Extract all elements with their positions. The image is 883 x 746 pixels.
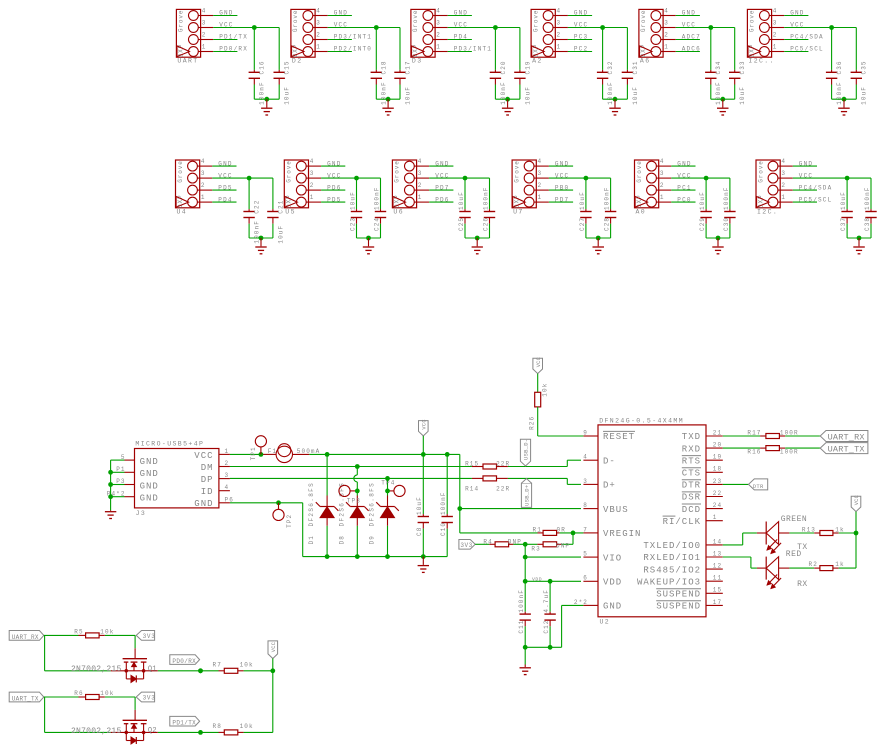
svg-text:C25: C25 [458,217,465,231]
svg-text:2: 2 [538,182,543,189]
svg-text:8: 8 [583,502,588,509]
svg-text:4: 4 [316,8,321,15]
svg-text:GND: GND [603,602,622,612]
svg-text:P3: P3 [116,478,125,485]
svg-text:C23: C23 [349,217,356,231]
svg-text:3V3: 3V3 [143,633,156,640]
svg-text:100R: 100R [780,429,799,436]
svg-text:R7: R7 [213,662,222,669]
svg-text:Grove: Grove [636,160,643,183]
svg-text:4: 4 [660,158,665,165]
svg-text:DTR: DTR [682,481,701,491]
svg-text:C10: C10 [440,522,447,536]
svg-text:D3: D3 [412,58,423,65]
svg-text:GND: GND [140,481,159,491]
svg-text:RED: RED [786,550,802,559]
svg-text:100nF: 100nF [254,220,261,244]
svg-text:11: 11 [713,575,722,582]
svg-text:C37: C37 [840,217,847,231]
svg-text:C21: C21 [277,200,284,214]
svg-text:1k: 1k [835,526,844,533]
svg-text:UART: UART [177,58,198,65]
svg-text:D2: D2 [292,58,303,65]
svg-text:3: 3 [781,170,786,177]
svg-text:2*2: 2*2 [574,599,588,606]
svg-text:100nF: 100nF [607,81,614,105]
svg-text:DM: DM [201,463,214,473]
svg-text:100R: 100R [780,448,799,455]
svg-text:1: 1 [781,194,786,201]
svg-text:C32: C32 [607,60,614,74]
svg-text:2: 2 [201,182,206,189]
svg-text:TP1: TP1 [250,446,257,460]
svg-text:5: 5 [583,551,588,558]
svg-text:7: 7 [583,526,588,533]
svg-text:DNP: DNP [556,542,570,549]
svg-text:3V3: 3V3 [460,542,472,549]
svg-text:RX: RX [797,580,808,589]
svg-text:C11: C11 [518,619,525,633]
svg-text:100nF: 100nF [482,186,489,210]
svg-text:C19: C19 [524,60,531,74]
svg-text:14: 14 [713,538,722,545]
svg-text:22: 22 [713,490,722,497]
svg-text:R4: R4 [483,538,492,545]
svg-text:1: 1 [538,194,543,201]
svg-text:3V3: 3V3 [143,695,156,702]
svg-text:3: 3 [310,170,315,177]
svg-text:U6: U6 [393,208,404,215]
svg-text:100nF: 100nF [373,186,380,210]
svg-text:C8: C8 [416,527,423,536]
svg-text:C36: C36 [836,60,843,74]
svg-text:1: 1 [557,44,562,51]
svg-text:4: 4 [773,8,778,15]
svg-text:CTS: CTS [682,469,701,479]
svg-text:C22: C22 [254,200,261,214]
svg-text:2: 2 [310,182,315,189]
svg-text:2N7002,215: 2N7002,215 [71,665,122,674]
svg-text:0R: 0R [557,527,566,534]
svg-text:1: 1 [773,44,778,51]
svg-text:4: 4 [781,158,786,165]
svg-text:VREGIN: VREGIN [603,529,641,539]
svg-text:3: 3 [583,478,588,485]
svg-text:RI/CLK: RI/CLK [663,517,701,527]
svg-text:C24: C24 [373,217,380,231]
svg-text:GND: GND [140,494,159,504]
svg-text:1: 1 [225,448,230,455]
svg-text:17: 17 [713,599,722,606]
svg-text:Grove: Grove [757,160,764,183]
svg-text:23: 23 [713,478,722,485]
svg-text:100nF: 100nF [836,81,843,105]
svg-text:4.7uF: 4.7uF [543,589,550,613]
svg-text:4: 4 [436,8,441,15]
svg-text:4: 4 [583,454,588,461]
svg-text:10uF: 10uF [416,496,423,515]
svg-text:4: 4 [202,8,207,15]
svg-text:3: 3 [418,170,423,177]
svg-text:C28: C28 [604,217,611,231]
svg-text:3: 3 [202,20,207,27]
svg-text:U5: U5 [285,208,296,215]
svg-text:Grove: Grove [292,10,299,33]
svg-text:J3: J3 [136,510,147,517]
svg-text:10uF: 10uF [699,191,706,210]
svg-text:I2C.: I2C. [757,208,778,215]
svg-text:D+: D+ [603,481,616,491]
svg-text:10uF: 10uF [739,86,746,105]
svg-text:4: 4 [538,158,543,165]
svg-text:R15: R15 [465,460,479,467]
svg-text:R2: R2 [809,561,818,568]
svg-text:1: 1 [660,194,665,201]
svg-text:DF2S6.8FS: DF2S6.8FS [369,482,376,527]
svg-text:24: 24 [713,502,722,509]
svg-text:MICRO-USB5+4P: MICRO-USB5+4P [135,441,204,448]
svg-text:R1: R1 [533,527,542,534]
svg-text:TXD: TXD [682,432,701,442]
svg-text:1: 1 [316,44,321,51]
svg-text:10uF: 10uF [277,225,284,244]
svg-text:R5: R5 [74,629,83,636]
svg-text:21: 21 [713,429,722,436]
svg-text:R3: R3 [531,546,540,553]
svg-text:PD0/RX: PD0/RX [172,658,196,665]
svg-text:VCC: VCC [194,451,213,461]
svg-text:U7: U7 [513,208,524,215]
svg-text:RXLED/IO1: RXLED/IO1 [643,553,701,563]
svg-text:2: 2 [316,32,321,39]
svg-text:2N7002,215: 2N7002,215 [71,727,122,736]
svg-text:GND: GND [140,469,159,479]
svg-text:10uF: 10uF [284,86,291,105]
svg-text:I2C..: I2C.. [748,58,775,65]
svg-text:VBUS: VBUS [603,505,629,515]
svg-text:R16: R16 [747,448,761,455]
svg-text:10uF: 10uF [632,86,639,105]
svg-text:2: 2 [557,32,562,39]
svg-text:10k: 10k [100,629,114,636]
svg-text:1: 1 [713,514,718,521]
svg-text:3: 3 [225,472,230,479]
svg-text:Grove: Grove [412,10,419,33]
svg-text:10uF: 10uF [524,86,531,105]
svg-text:GREEN: GREEN [781,515,808,524]
svg-text:3: 3 [660,170,665,177]
svg-text:DTR: DTR [753,483,764,490]
svg-text:VIO: VIO [603,553,622,563]
svg-text:22R: 22R [496,486,510,493]
svg-text:C35: C35 [861,60,868,74]
svg-text:D-: D- [603,456,616,466]
svg-text:DSR: DSR [682,493,701,503]
svg-text:R6: R6 [74,690,83,697]
svg-text:2: 2 [781,182,786,189]
svg-text:TXLED/IO0: TXLED/IO0 [643,541,701,551]
svg-text:ID: ID [201,487,214,497]
svg-text:VCC: VCC [421,419,427,429]
svg-text:2: 2 [202,32,207,39]
svg-text:A6: A6 [640,58,651,65]
svg-text:4: 4 [557,8,562,15]
svg-text:C18: C18 [381,60,388,74]
svg-text:3: 3 [664,20,669,27]
svg-text:C27: C27 [579,217,586,231]
svg-text:Q2: Q2 [148,727,157,735]
svg-text:DF2S6.8FS: DF2S6.8FS [308,482,315,527]
svg-text:PD1/TX: PD1/TX [172,720,196,727]
svg-text:UART_TX: UART_TX [828,445,865,455]
svg-text:2: 2 [660,182,665,189]
svg-text:F1: F1 [268,448,277,455]
svg-text:C15: C15 [284,60,291,74]
svg-text:100nF: 100nF [723,186,730,210]
svg-text:100nF: 100nF [715,81,722,105]
svg-text:1: 1 [201,194,206,201]
svg-text:VDD: VDD [603,578,622,588]
svg-text:USB_D-: USB_D- [523,439,530,460]
svg-text:C17: C17 [404,60,411,74]
svg-text:U4: U4 [177,208,188,215]
svg-text:C30: C30 [723,217,730,231]
svg-text:UART_RX: UART_RX [12,634,39,641]
svg-text:TP3: TP3 [347,498,361,505]
svg-text:D8: D8 [338,535,345,544]
svg-text:GND: GND [194,499,213,509]
svg-text:3: 3 [773,20,778,27]
svg-text:1: 1 [418,194,423,201]
svg-text:DFN24G-0.5-4X4MM: DFN24G-0.5-4X4MM [599,417,684,424]
svg-text:DP: DP [201,475,214,485]
svg-text:4: 4 [418,158,423,165]
svg-text:P1: P1 [116,466,125,473]
svg-text:10uF: 10uF [579,191,586,210]
svg-text:1: 1 [202,44,207,51]
svg-text:SUSPEND: SUSPEND [656,590,701,600]
svg-text:SUSPEND: SUSPEND [656,602,701,612]
svg-text:100nF: 100nF [259,81,266,105]
svg-text:2: 2 [418,182,423,189]
svg-text:5: 5 [121,454,126,461]
svg-text:22R: 22R [496,460,510,467]
svg-text:C34: C34 [715,60,722,74]
svg-text:3: 3 [557,20,562,27]
svg-text:2: 2 [225,460,230,467]
svg-text:RTS: RTS [682,456,701,466]
svg-text:Grove: Grove [394,160,401,183]
svg-text:C26: C26 [482,217,489,231]
svg-text:C16: C16 [259,60,266,74]
svg-text:R26: R26 [529,416,536,430]
svg-text:VCC: VCC [536,357,542,367]
svg-text:10uF: 10uF [404,86,411,105]
svg-text:500mA: 500mA [297,448,321,455]
svg-text:U2: U2 [600,619,611,626]
svg-text:10uF: 10uF [840,191,847,210]
svg-text:Grove: Grove [178,10,185,33]
svg-text:C20: C20 [500,60,507,74]
svg-text:3: 3 [436,20,441,27]
svg-text:1k: 1k [835,561,844,568]
svg-text:4: 4 [225,484,230,491]
svg-text:UART_TX: UART_TX [12,695,39,702]
svg-text:1: 1 [436,44,441,51]
svg-text:WAKEUP/IO3: WAKEUP/IO3 [637,577,701,587]
svg-text:100nF: 100nF [864,186,871,210]
svg-text:6: 6 [583,575,588,582]
svg-text:10uF: 10uF [458,191,465,210]
svg-text:1: 1 [664,44,669,51]
svg-text:RS485/IO2: RS485/IO2 [643,565,701,575]
svg-text:10uF: 10uF [349,191,356,210]
svg-text:USB_D+: USB_D+ [524,485,531,506]
svg-text:C29: C29 [699,217,706,231]
svg-text:12: 12 [713,563,722,570]
svg-text:2: 2 [664,32,669,39]
svg-text:3: 3 [316,20,321,27]
svg-text:1: 1 [310,194,315,201]
svg-text:15: 15 [713,587,722,594]
svg-text:4: 4 [201,158,206,165]
svg-text:C31: C31 [632,60,639,74]
svg-text:10k: 10k [240,662,254,669]
svg-text:Grove: Grove [749,10,756,33]
svg-text:Grove: Grove [532,10,539,33]
svg-text:Q1: Q1 [148,666,157,674]
svg-text:20: 20 [713,442,722,449]
svg-text:GND: GND [140,457,159,467]
svg-text:2: 2 [773,32,778,39]
svg-text:R8: R8 [213,723,222,730]
svg-text:100nF: 100nF [381,81,388,105]
svg-text:10k: 10k [100,690,114,697]
svg-text:Grove: Grove [513,160,520,183]
svg-text:D1: D1 [308,535,315,544]
svg-text:3: 3 [538,170,543,177]
svg-text:10k: 10k [240,723,254,730]
svg-text:19: 19 [713,454,722,461]
svg-text:3: 3 [201,170,206,177]
svg-text:A0: A0 [636,208,647,215]
svg-text:C12: C12 [543,619,550,633]
svg-text:Grove: Grove [286,160,293,183]
svg-text:2: 2 [436,32,441,39]
svg-text:TP2: TP2 [286,514,293,528]
svg-text:R14: R14 [465,486,479,493]
svg-text:13: 13 [713,550,722,557]
svg-text:9: 9 [583,429,588,436]
svg-text:C33: C33 [739,60,746,74]
svg-text:4: 4 [664,8,669,15]
svg-text:RXD: RXD [682,444,701,454]
svg-text:DNP: DNP [508,538,522,545]
svg-text:R17: R17 [747,429,761,436]
svg-text:100nF: 100nF [604,186,611,210]
svg-text:VCC: VCC [271,642,277,652]
svg-text:RESET: RESET [603,432,635,442]
svg-text:R13: R13 [802,526,816,533]
svg-text:10uF: 10uF [861,86,868,105]
svg-text:100nF: 100nF [518,589,525,613]
svg-text:Grove: Grove [640,10,647,33]
svg-text:10k: 10k [542,383,549,397]
svg-text:100nF: 100nF [440,491,447,515]
svg-text:VDD: VDD [532,576,542,582]
svg-text:D9: D9 [369,535,376,544]
svg-text:UART_RX: UART_RX [828,432,865,442]
svg-text:A2: A2 [532,58,543,65]
svg-text:DCD: DCD [682,505,701,515]
svg-text:100nF: 100nF [500,81,507,105]
svg-text:Grove: Grove [177,160,184,183]
svg-text:18: 18 [713,466,722,473]
svg-text:4: 4 [310,158,315,165]
svg-text:C38: C38 [864,217,871,231]
svg-text:VCC: VCC [854,495,860,505]
